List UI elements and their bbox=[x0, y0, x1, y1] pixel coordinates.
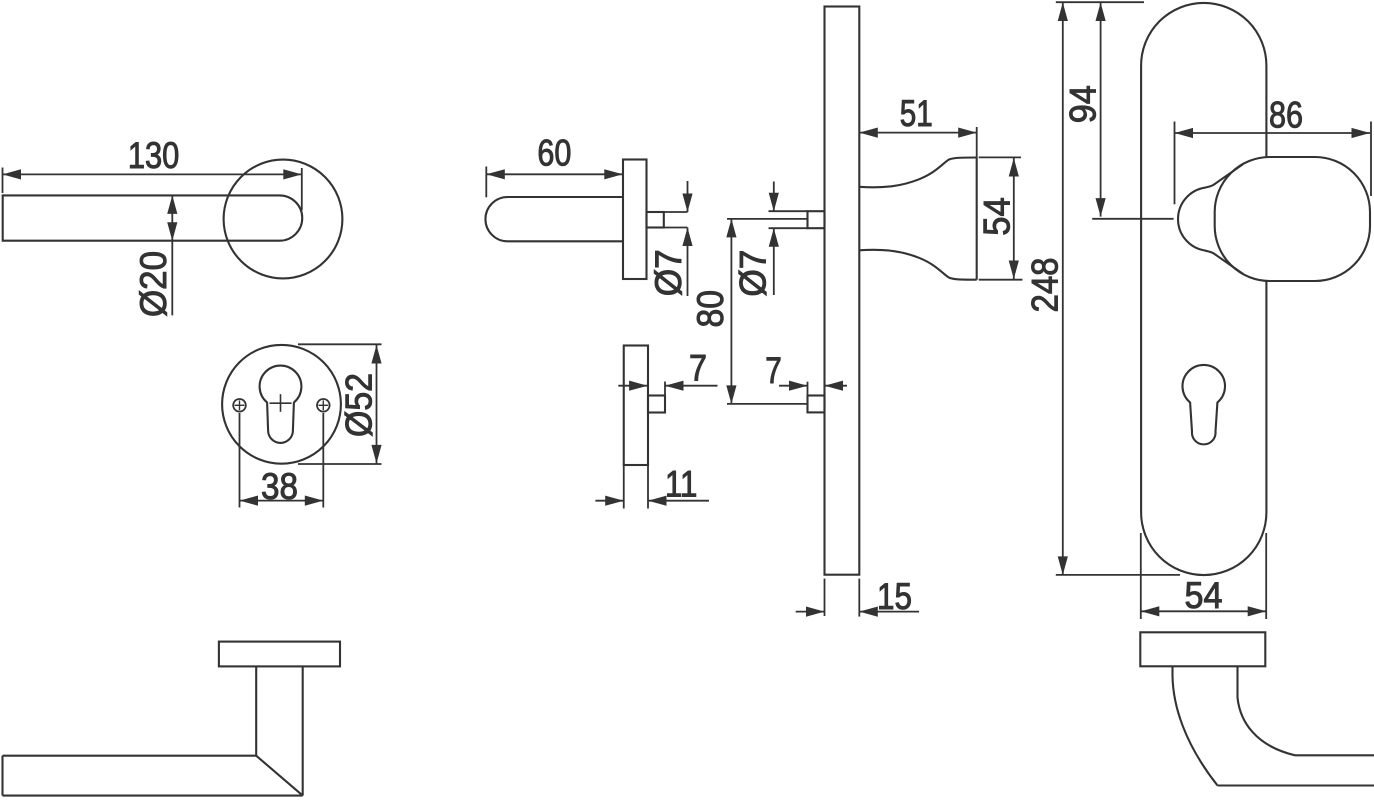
left screw bbox=[233, 399, 246, 412]
dim 54 right arrow bbox=[1248, 606, 1267, 616]
dim 51 left arrow bbox=[859, 128, 878, 138]
dim 15 right-point arrow bbox=[806, 607, 825, 617]
svg-text:94: 94 bbox=[1063, 85, 1104, 123]
dim O7 down arrow bbox=[769, 193, 779, 212]
handle neck right curve bbox=[1238, 666, 1296, 755]
dim 52 shaft bbox=[376, 344, 378, 464]
svg-text:7: 7 bbox=[765, 350, 782, 391]
dim 11 left tail bbox=[595, 500, 623, 502]
dim 80 bottom extension bbox=[727, 403, 808, 405]
dim 11 left-point arrow bbox=[648, 496, 667, 506]
dim 11 right extension bbox=[647, 465, 649, 509]
neck right edge bbox=[302, 666, 304, 795]
lower cylinder pin bbox=[808, 396, 825, 413]
pin top extension bbox=[664, 211, 688, 213]
dim 7 down arrow bbox=[682, 194, 692, 213]
dim 54 down arrow bbox=[1009, 261, 1019, 280]
escutcheon circle bbox=[222, 345, 341, 464]
dim 248 down arrow bbox=[1058, 556, 1068, 575]
dim 11 right-point arrow bbox=[605, 496, 624, 506]
dim 54 left arrow bbox=[1141, 606, 1160, 616]
dim 7 right tail bbox=[665, 385, 718, 387]
dim 51 line bbox=[859, 132, 976, 134]
svg-text:Ø52: Ø52 bbox=[339, 373, 380, 437]
dim 38 right extension bbox=[322, 413, 324, 508]
euro profile cylinder keyhole bbox=[260, 366, 302, 443]
upper pin top extension bbox=[769, 210, 808, 212]
upper spindle pin bbox=[808, 211, 825, 228]
dim O7 upper shaft bbox=[773, 182, 775, 212]
grip top edge bbox=[3, 755, 257, 757]
svg-text:130: 130 bbox=[128, 135, 180, 176]
dim O7 up arrow bbox=[769, 228, 779, 247]
dim 52 top extension bbox=[298, 343, 382, 345]
dim 7 upper shaft bbox=[687, 181, 689, 212]
dim 51 right arrow bbox=[958, 128, 977, 138]
dim 38 line bbox=[240, 500, 324, 502]
dim 54 left extension bbox=[1140, 533, 1142, 619]
upper pin bottom extension bbox=[769, 227, 808, 229]
dim 7 right tail (plate) bbox=[825, 385, 848, 387]
pin bottom extension bbox=[664, 227, 688, 229]
dim 7 left tail bbox=[618, 385, 647, 387]
dim 248 up arrow bbox=[1058, 3, 1068, 22]
dim 54 up arrow bbox=[1009, 158, 1019, 177]
dim 38 right arrow bbox=[305, 496, 324, 506]
dim 11 right tail bbox=[648, 500, 709, 502]
blank rose plate bbox=[624, 346, 648, 466]
dim 7 left-point arrow bbox=[665, 381, 684, 391]
dim 54 line bbox=[1141, 610, 1266, 612]
dim 60 right arrow bbox=[604, 169, 623, 179]
dim 54 shaft bbox=[1013, 157, 1015, 279]
lever grip bar (top view) bbox=[3, 195, 303, 240]
dim 94 up arrow bbox=[1096, 3, 1106, 22]
svg-text:86: 86 bbox=[1269, 95, 1303, 136]
dim 54 bottom extension bbox=[979, 279, 1023, 281]
dim 130 left extension bbox=[2, 168, 4, 194]
dim 15 left extension bbox=[824, 579, 826, 616]
svg-text:248: 248 bbox=[1025, 258, 1066, 313]
dim 86 right arrow bbox=[1352, 128, 1371, 138]
svg-text:Ø20: Ø20 bbox=[133, 251, 174, 317]
blank rose pin bbox=[648, 396, 665, 413]
right screw bbox=[317, 399, 330, 412]
neck 45-degree transition bbox=[256, 756, 303, 796]
neck left edge bbox=[255, 666, 257, 755]
svg-text:54: 54 bbox=[1185, 575, 1223, 616]
dim 54 right extension bbox=[1265, 533, 1267, 619]
knob head front view bbox=[1215, 157, 1370, 281]
dim 86 line bbox=[1175, 132, 1371, 134]
grip left end bbox=[1, 756, 3, 796]
svg-text:60: 60 bbox=[537, 133, 571, 174]
dim 7 up arrow bbox=[682, 228, 692, 247]
dim 7 right-point arrow bbox=[629, 381, 648, 391]
dim 80 top extension bbox=[727, 218, 808, 220]
dim 86 left extension bbox=[1174, 122, 1176, 205]
knob top profile bbox=[859, 158, 977, 188]
grip bottom edge bbox=[1218, 784, 1374, 786]
dim 15 right tail bbox=[859, 611, 919, 613]
dim 80 shaft bbox=[730, 219, 732, 404]
dim 52 bottom extension bbox=[298, 463, 382, 465]
lower pin extension bbox=[807, 382, 809, 396]
knob bottom profile bbox=[859, 250, 977, 280]
dim 94 bottom extension bbox=[1092, 218, 1173, 220]
round rose circle bbox=[224, 160, 343, 279]
pin tip extension bbox=[664, 382, 666, 396]
dim 94 shaft bbox=[1100, 2, 1102, 216]
svg-text:7: 7 bbox=[689, 348, 707, 389]
dim 86 right extension bbox=[1370, 122, 1372, 197]
plate outline (right edge interrupted by knob) bbox=[1141, 3, 1266, 575]
knob face bbox=[976, 158, 978, 280]
dim 11 left extension bbox=[623, 465, 625, 509]
dim 52 down arrow bbox=[371, 445, 381, 464]
grip bottom edge bbox=[3, 795, 303, 797]
dim 130 left arrow bbox=[3, 169, 22, 179]
svg-text:Ø7: Ø7 bbox=[733, 250, 774, 297]
dim 7 right-point arrow (plate) bbox=[789, 381, 808, 391]
dim 60 line bbox=[486, 173, 623, 175]
dim 60 left arrow bbox=[486, 169, 505, 179]
dim 51 right extension bbox=[976, 127, 978, 158]
plate side profile bbox=[825, 7, 860, 575]
rose side view plate bbox=[623, 160, 647, 280]
grip top edge bbox=[1295, 754, 1374, 756]
svg-text:Ø7: Ø7 bbox=[648, 249, 689, 296]
handle neck left curve bbox=[1173, 666, 1218, 785]
center cross vertical bbox=[280, 394, 282, 412]
dim 248 shaft bbox=[1062, 2, 1064, 575]
plate keyhole bbox=[1182, 365, 1225, 444]
dim 86 left arrow bbox=[1175, 128, 1194, 138]
dim 80 up arrow bbox=[726, 219, 736, 238]
dim 7 left-point arrow (plate) bbox=[825, 381, 844, 391]
svg-text:11: 11 bbox=[665, 464, 698, 505]
svg-text:51: 51 bbox=[900, 93, 933, 134]
dim 130 line bbox=[3, 173, 302, 175]
dim 15 left tail bbox=[796, 611, 825, 613]
knob neck front view bbox=[1178, 164, 1243, 274]
dim 20 down arrow bbox=[167, 222, 177, 241]
dim 130 right extension bbox=[301, 168, 303, 210]
plate end cross-section bbox=[1140, 632, 1265, 666]
grip capsule front view bbox=[485, 197, 623, 241]
dim 38 left arrow bbox=[240, 496, 259, 506]
dim 15 left-point arrow bbox=[859, 607, 878, 617]
svg-text:80: 80 bbox=[690, 290, 731, 328]
dim 248 bottom extension bbox=[1056, 574, 1180, 576]
dim 94 down arrow bbox=[1096, 198, 1106, 217]
dim 130 right arrow bbox=[283, 169, 302, 179]
dim 248 top extension bbox=[1056, 1, 1144, 3]
dim 20 shaft bbox=[171, 195, 173, 315]
dim 52 up arrow bbox=[371, 345, 381, 364]
dim 20 up arrow bbox=[167, 195, 177, 214]
svg-text:54: 54 bbox=[977, 197, 1018, 236]
dim 54 top extension bbox=[979, 156, 1021, 158]
svg-text:15: 15 bbox=[877, 576, 912, 617]
dim 80 down arrow bbox=[726, 385, 736, 404]
svg-text:38: 38 bbox=[261, 466, 298, 507]
center cross horizontal bbox=[270, 402, 292, 404]
dim 38 left extension bbox=[239, 413, 241, 508]
rose disc side view bbox=[219, 642, 340, 667]
spindle pin bbox=[647, 212, 664, 228]
dim 15 right extension bbox=[858, 579, 860, 617]
dim 7 left tail (plate) bbox=[779, 385, 808, 387]
dim 60 left extension bbox=[485, 167, 487, 198]
